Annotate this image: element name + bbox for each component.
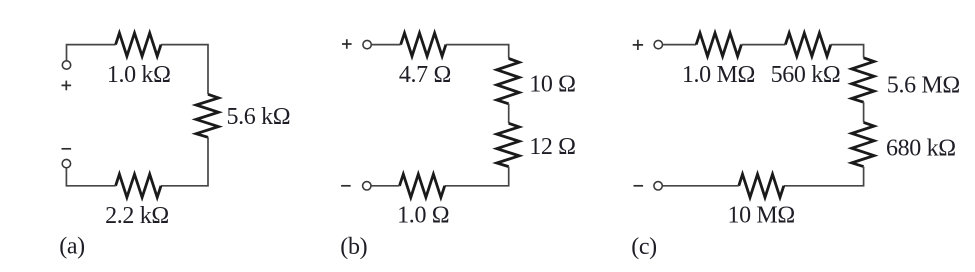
svg-text:(b): (b) [340, 234, 367, 260]
minus sign (a) [62, 148, 72, 150]
svg-text:10 Ω: 10 Ω [529, 72, 575, 98]
wire (a) top-right corner [161, 45, 208, 95]
terminal + node (b) [363, 40, 371, 48]
wire (a) bottom to - terminal [66, 168, 115, 186]
svg-text:1.0 kΩ: 1.0 kΩ [107, 62, 171, 88]
terminal - node (a) [62, 159, 70, 167]
wire (a) bottom-right corner [161, 137, 208, 186]
svg-text:5.6 MΩ: 5.6 MΩ [887, 72, 960, 98]
wire (b) between right resistors [508, 104, 510, 124]
terminal + node (c) [654, 40, 662, 48]
resistor R 12 Ohm (b) right lower [497, 123, 519, 166]
wire (c) bottom-right corner [784, 167, 864, 186]
plus sign (b) [342, 39, 352, 49]
terminal - node (b) [363, 182, 371, 190]
wire (b) top left [372, 44, 401, 46]
wire (b) bottom left [371, 185, 399, 187]
svg-text:560 kΩ: 560 kΩ [771, 62, 841, 88]
resistor R 10 Ohm (b) right upper [497, 59, 519, 104]
resistor R 560 kOhm (c) top second [785, 33, 830, 56]
resistor R 1.0 MOhm (c) top first [696, 33, 741, 56]
svg-text:5.6 kΩ: 5.6 kΩ [227, 104, 291, 130]
svg-text:4.7 Ω: 4.7 Ω [399, 62, 451, 88]
resistor R 1.0 Ohm (b) bottom [400, 174, 445, 197]
svg-text:680 kΩ: 680 kΩ [886, 136, 956, 162]
wire (c) top left [663, 44, 696, 46]
svg-text:(c): (c) [631, 234, 657, 260]
resistor R 10 MOhm (c) bottom [739, 174, 784, 197]
resistor R 4.7 Ohm (b) top [401, 33, 446, 56]
svg-text:12 Ω: 12 Ω [529, 134, 575, 160]
resistor R 2.2 k&#937; (a) bottom [116, 174, 161, 197]
plus sign (c) [633, 40, 643, 50]
minus sign (b) [341, 185, 351, 187]
svg-text:10 MΩ: 10 MΩ [727, 203, 794, 229]
wire (c) top middle [741, 44, 785, 46]
wire (c) between right resistors [863, 102, 865, 122]
wire (c) top-right corner [831, 45, 864, 58]
wire (c) bottom left [663, 185, 739, 187]
svg-text:1.0 Ω: 1.0 Ω [397, 203, 449, 229]
resistor R 680 kOhm (c) right lower [852, 122, 874, 166]
wire (b) bottom-right corner [445, 167, 509, 186]
svg-text:(a): (a) [59, 234, 85, 260]
svg-text:1.0 MΩ: 1.0 MΩ [682, 62, 755, 88]
resistor R 5.6 MOhm (c) right upper [852, 58, 874, 102]
resistor R 5.6 k&#937; (a) right [196, 94, 218, 137]
svg-text:2.2 kΩ: 2.2 kΩ [105, 203, 169, 229]
wire (b) top-right corner [446, 45, 509, 59]
wire (a) top from + branch to R1 [67, 45, 116, 61]
plus sign (a) [62, 81, 72, 91]
terminal - node (c) [654, 182, 662, 190]
terminal + node (a) [62, 61, 70, 69]
resistor R 1.0 k&#937; (a) top [116, 33, 161, 56]
minus sign (c) [634, 185, 644, 187]
